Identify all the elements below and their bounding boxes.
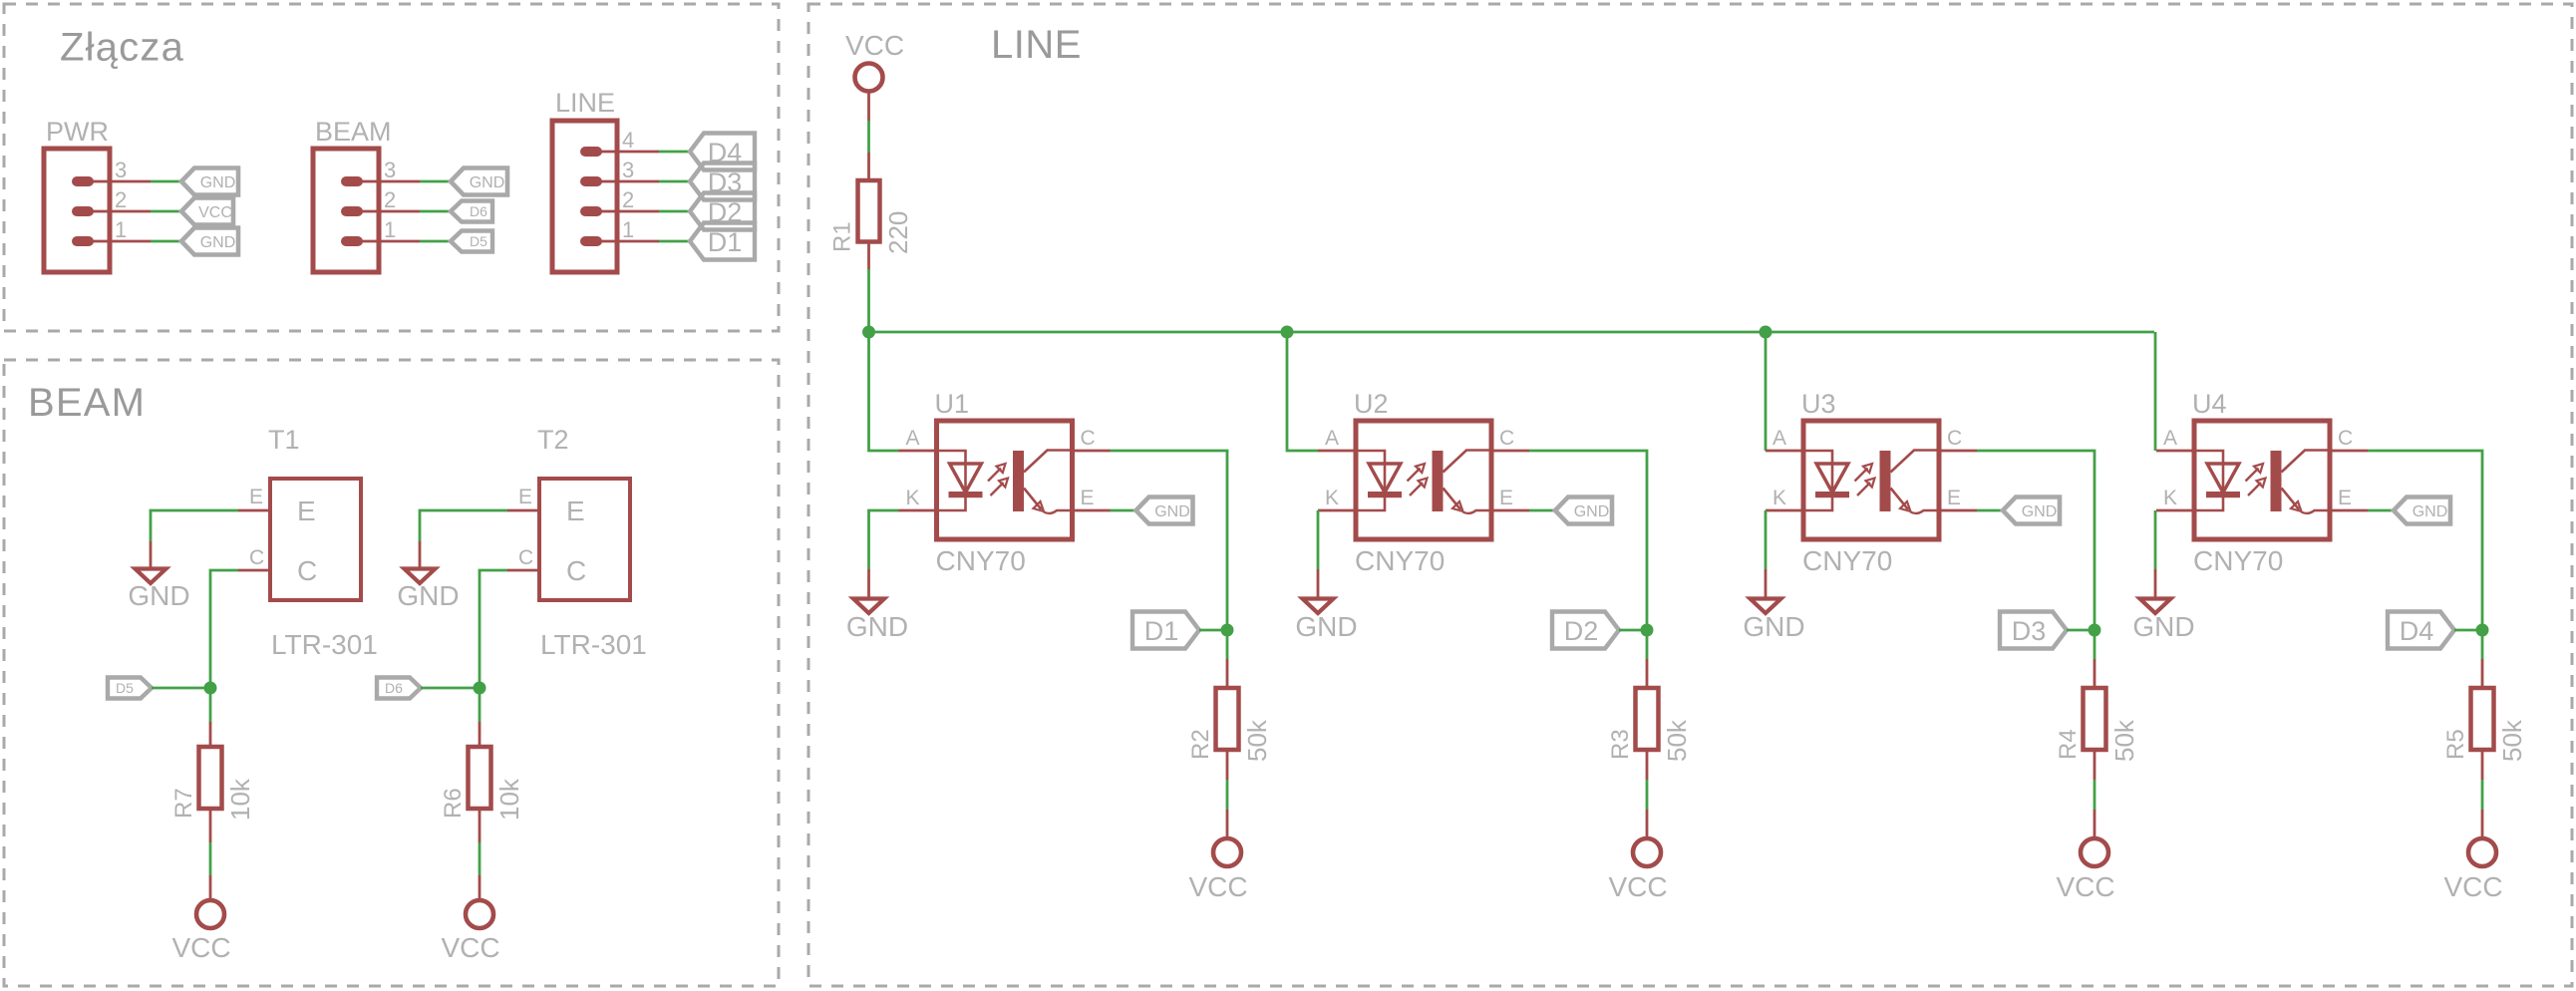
junction node D3 xyxy=(2089,624,2101,637)
wire E to GND (T1) xyxy=(151,510,238,541)
pin K (U2) xyxy=(1318,487,1356,510)
wire junction to R3 xyxy=(1646,630,1649,659)
wire net from PWR pin at y=212 xyxy=(151,210,182,213)
pin 1 (BEAM) xyxy=(352,217,420,242)
svg-text:LTR-301: LTR-301 xyxy=(540,629,647,660)
wire bus to U2 anode xyxy=(1287,332,1318,451)
wire net from LINE pin at y=152 xyxy=(659,151,691,154)
ground GND (T1) xyxy=(128,569,189,612)
flag GND (U4) xyxy=(2394,497,2450,524)
wire D4 flag to junction xyxy=(2454,629,2482,632)
wire net from BEAM pin at y=242 xyxy=(420,240,452,243)
svg-text:D2: D2 xyxy=(1564,616,1599,646)
ground GND (T2) xyxy=(397,569,459,612)
pin 1 (LINE conn) xyxy=(591,217,659,242)
svg-text:E: E xyxy=(249,486,263,508)
resistor R5 xyxy=(2471,688,2494,750)
svg-text:LTR-301: LTR-301 xyxy=(271,629,378,660)
flag D3 (LINE conn) xyxy=(690,164,755,200)
svg-text:A: A xyxy=(905,427,919,450)
svg-text:T2: T2 xyxy=(537,425,569,455)
wire gnd stub (U1) xyxy=(867,569,870,598)
pin 3 (BEAM) xyxy=(352,158,420,182)
svg-text:U3: U3 xyxy=(1801,389,1836,419)
supply VCC (R4) xyxy=(2056,838,2114,902)
svg-text:10k: 10k xyxy=(225,778,255,821)
svg-text:A: A xyxy=(2163,427,2177,450)
svg-text:1: 1 xyxy=(622,217,634,242)
wire net from BEAM pin at y=212 xyxy=(420,210,452,213)
pin 3 (PWR) xyxy=(83,158,151,182)
resistor R3 xyxy=(1636,688,1659,750)
svg-text:GND: GND xyxy=(470,174,505,191)
wire pin to gnd symbol (T1) xyxy=(150,541,153,568)
wire bus (VCC-LED rail) xyxy=(869,331,2155,334)
svg-text:D1: D1 xyxy=(708,227,743,257)
resistor R6 xyxy=(469,747,491,809)
wire C to junction D4 (U4) xyxy=(2368,451,2482,630)
wire R1 to bus xyxy=(867,242,870,270)
svg-text:C: C xyxy=(249,546,264,569)
pin C (U2) xyxy=(1491,427,1529,451)
wire net from LINE pin at y=212 xyxy=(659,210,691,213)
svg-text:C: C xyxy=(297,555,317,586)
pin E (U2) xyxy=(1491,487,1529,510)
svg-text:D1: D1 xyxy=(1144,616,1179,646)
svg-text:2: 2 xyxy=(115,187,127,212)
svg-text:VCC: VCC xyxy=(441,932,499,963)
svg-text:CNY70: CNY70 xyxy=(936,545,1026,576)
wire E to GND flag (U4) xyxy=(2368,509,2395,512)
svg-text:GND: GND xyxy=(846,611,908,642)
wire K to GND (U4) xyxy=(2154,510,2157,569)
svg-text:GND: GND xyxy=(2413,503,2448,520)
wire D1 flag to junction xyxy=(1199,629,1227,632)
svg-text:R4: R4 xyxy=(2055,729,2082,760)
phototransistor T2 (LTR-301) xyxy=(539,479,630,600)
svg-text:D6: D6 xyxy=(385,680,403,696)
wire bus to U1 anode xyxy=(869,332,899,451)
svg-text:C: C xyxy=(1499,427,1514,450)
wire R7 to VCC xyxy=(209,809,212,842)
wire R5 to VCC xyxy=(2481,750,2484,780)
wire net from PWR pin at y=182 xyxy=(151,180,182,183)
svg-text:K: K xyxy=(2163,487,2177,509)
svg-text:D5: D5 xyxy=(116,680,134,696)
svg-text:BEAM: BEAM xyxy=(28,381,146,425)
junction node D2 xyxy=(1641,624,1654,637)
svg-text:K: K xyxy=(1772,487,1786,509)
wire net from BEAM pin at y=182 xyxy=(420,180,452,183)
svg-text:GND: GND xyxy=(1154,503,1190,520)
pin 1 (PWR) xyxy=(83,217,151,242)
pin K (U1) xyxy=(899,487,937,510)
svg-text:A: A xyxy=(1325,427,1339,450)
svg-text:CNY70: CNY70 xyxy=(1355,545,1445,576)
frame: Zlacza section xyxy=(4,4,779,331)
flag D1 xyxy=(1132,612,1199,649)
supply VCC (R2) xyxy=(1188,838,1247,902)
svg-text:VCC: VCC xyxy=(198,204,232,221)
supply VCC (T2) xyxy=(441,900,499,963)
svg-text:C: C xyxy=(1947,427,1962,450)
supply VCC (R5) xyxy=(2443,838,2502,902)
wire bus to U4 anode xyxy=(2154,332,2157,451)
flag D6 (BEAM) xyxy=(451,201,492,222)
wire junction to R4 xyxy=(2093,630,2096,659)
wire D2 flag to junction xyxy=(1619,629,1647,632)
resistor R4 xyxy=(2084,688,2106,750)
svg-text:VCC: VCC xyxy=(2443,871,2502,902)
svg-text:2: 2 xyxy=(622,187,634,212)
pin 2 (LINE conn) xyxy=(591,187,659,212)
wire C to junction D3 (U3) xyxy=(1977,451,2094,630)
connector PWR xyxy=(44,149,110,272)
svg-text:50k: 50k xyxy=(1662,719,1692,762)
pin E (U4) xyxy=(2330,487,2368,510)
wire VCC to R1 xyxy=(867,92,870,122)
pin E (T2) xyxy=(507,486,541,510)
frame: BEAM section xyxy=(4,360,779,986)
svg-text:C: C xyxy=(518,546,533,569)
resistor R7 xyxy=(199,747,222,809)
wire C to junction D2 (U2) xyxy=(1529,451,1647,630)
ground GND (U2) xyxy=(1295,599,1357,643)
svg-text:A: A xyxy=(1772,427,1786,450)
svg-text:R3: R3 xyxy=(1607,729,1634,760)
junction bus/U1 xyxy=(862,326,875,339)
wire junction to R7 xyxy=(209,688,212,722)
wire K to GND (U1) xyxy=(869,510,899,569)
wire K to GND (U2) xyxy=(1317,510,1320,569)
wire junction to R5 xyxy=(2481,630,2484,659)
svg-text:GND: GND xyxy=(200,234,236,251)
svg-text:3: 3 xyxy=(384,158,396,182)
optocoupler U2 (CNY70) xyxy=(1356,421,1491,539)
flag D5 (BEAM) xyxy=(451,231,492,252)
supply VCC (T1) xyxy=(171,900,230,963)
svg-text:E: E xyxy=(297,495,316,526)
junction bus/U3 xyxy=(1760,326,1772,339)
svg-text:VCC: VCC xyxy=(171,932,230,963)
pin E (U3) xyxy=(1939,487,1977,510)
wire E to GND flag (U1) xyxy=(1111,509,1137,512)
pin A (U4) xyxy=(2156,427,2194,451)
flag D6 xyxy=(377,678,421,699)
flag D3 xyxy=(2000,612,2067,649)
svg-text:E: E xyxy=(2338,487,2352,509)
svg-text:E: E xyxy=(518,486,532,508)
pin E (U1) xyxy=(1073,487,1111,510)
svg-text:50k: 50k xyxy=(2497,719,2527,762)
frame: LINE section xyxy=(808,4,2572,986)
optocoupler U3 (CNY70) xyxy=(1803,421,1939,539)
junction node D6 xyxy=(474,682,486,695)
flag D2 (LINE conn) xyxy=(690,193,755,230)
wire R6 to VCC xyxy=(479,809,482,842)
flag D1 (LINE conn) xyxy=(690,223,755,260)
pin A (U1) xyxy=(899,427,937,451)
pin 3 (LINE conn) xyxy=(591,158,659,182)
pin C (T2) xyxy=(507,546,541,570)
wire R2 to VCC xyxy=(1226,750,1229,780)
wire D5 flag to junction xyxy=(152,687,210,690)
pin K (U4) xyxy=(2156,487,2194,510)
svg-text:D5: D5 xyxy=(470,233,487,249)
wire C to junction D1 (U1) xyxy=(1111,451,1228,630)
wire net from LINE pin at y=182 xyxy=(659,180,691,183)
svg-text:GND: GND xyxy=(1743,611,1804,642)
wire net from PWR pin at y=242 xyxy=(151,240,182,243)
pin C (U3) xyxy=(1939,427,1977,451)
svg-text:1: 1 xyxy=(384,217,396,242)
wire E to GND flag (U2) xyxy=(1529,509,1556,512)
svg-text:GND: GND xyxy=(2022,503,2058,520)
svg-text:LINE: LINE xyxy=(555,88,615,118)
pin K (U3) xyxy=(1766,487,1803,510)
svg-text:T1: T1 xyxy=(268,425,300,455)
flag GND (U3) xyxy=(2003,497,2060,524)
svg-text:R1: R1 xyxy=(829,221,856,252)
svg-text:2: 2 xyxy=(384,187,396,212)
svg-text:3: 3 xyxy=(622,158,634,182)
wire E to GND (T2) xyxy=(420,510,507,541)
wire gnd stub (U4) xyxy=(2154,569,2157,598)
pin C (U1) xyxy=(1073,427,1111,451)
wire C net (T2) xyxy=(480,570,507,688)
ground GND (U1) xyxy=(846,599,908,643)
optocoupler U4 (CNY70) xyxy=(2194,421,2330,539)
svg-text:U4: U4 xyxy=(2192,389,2227,419)
svg-text:K: K xyxy=(1325,487,1339,509)
svg-text:BEAM: BEAM xyxy=(315,117,392,147)
flag GND (PWR) xyxy=(181,168,238,195)
junction node D5 xyxy=(204,682,217,695)
flag GND (U1) xyxy=(1136,497,1193,524)
svg-text:C: C xyxy=(2338,427,2353,450)
pin 4 (LINE conn) xyxy=(591,128,659,153)
svg-text:220: 220 xyxy=(883,211,913,254)
wire E to GND flag (U3) xyxy=(1977,509,2004,512)
wire gnd stub (U2) xyxy=(1317,569,1320,598)
ground GND (U3) xyxy=(1743,599,1804,643)
svg-text:U2: U2 xyxy=(1354,389,1389,419)
svg-text:4: 4 xyxy=(622,128,634,153)
svg-text:R2: R2 xyxy=(1187,729,1214,760)
connector LINE xyxy=(552,121,617,272)
svg-text:D4: D4 xyxy=(2400,616,2434,646)
svg-text:VCC: VCC xyxy=(2056,871,2114,902)
junction bus/U2 xyxy=(1281,326,1294,339)
svg-text:GND: GND xyxy=(1295,611,1357,642)
svg-text:R5: R5 xyxy=(2442,729,2469,760)
optocoupler U1 (CNY70) xyxy=(937,421,1073,539)
wire C net (T1) xyxy=(210,570,238,688)
svg-text:LINE: LINE xyxy=(991,23,1082,67)
wire D3 flag to junction xyxy=(2067,629,2094,632)
pin 2 (BEAM) xyxy=(352,187,420,212)
flag GND (U2) xyxy=(1555,497,1612,524)
svg-text:50k: 50k xyxy=(1242,719,1272,762)
wire junction to R6 xyxy=(479,688,482,722)
svg-text:Złącza: Złącza xyxy=(60,26,184,70)
flag D5 xyxy=(108,678,152,699)
phototransistor T1 (LTR-301) xyxy=(270,479,361,600)
svg-text:GND: GND xyxy=(1574,503,1610,520)
svg-text:R6: R6 xyxy=(440,788,467,819)
svg-text:VCC: VCC xyxy=(1608,871,1667,902)
svg-text:E: E xyxy=(1081,487,1095,509)
svg-text:VCC: VCC xyxy=(1188,871,1247,902)
junction node D4 xyxy=(2476,624,2489,637)
svg-text:K: K xyxy=(905,487,919,509)
flag GND (BEAM) xyxy=(451,168,507,195)
svg-text:GND: GND xyxy=(128,580,189,611)
svg-text:GND: GND xyxy=(2132,611,2194,642)
svg-text:D6: D6 xyxy=(470,203,487,219)
supply VCC (top) xyxy=(845,30,904,92)
flag D4 xyxy=(2388,612,2454,649)
svg-text:1: 1 xyxy=(115,217,127,242)
wire K to GND (U3) xyxy=(1765,510,1768,569)
svg-text:3: 3 xyxy=(115,158,127,182)
wire bus to U3 anode xyxy=(1765,332,1768,451)
resistor R2 xyxy=(1216,688,1239,750)
wire D6 flag to junction xyxy=(421,687,480,690)
junction node D1 xyxy=(1221,624,1234,637)
wire R4 to VCC xyxy=(2093,750,2096,780)
flag D2 xyxy=(1552,612,1619,649)
wire junction to R2 xyxy=(1226,630,1229,659)
svg-text:E: E xyxy=(1947,487,1961,509)
svg-text:D3: D3 xyxy=(2012,616,2047,646)
svg-text:E: E xyxy=(566,495,585,526)
wire gnd stub (U3) xyxy=(1765,569,1768,598)
svg-text:C: C xyxy=(1081,427,1096,450)
supply VCC (R3) xyxy=(1608,838,1667,902)
pin A (U3) xyxy=(1766,427,1803,451)
svg-text:50k: 50k xyxy=(2109,719,2139,762)
flag VCC (PWR) xyxy=(181,198,233,225)
svg-text:CNY70: CNY70 xyxy=(1802,545,1892,576)
svg-text:C: C xyxy=(566,555,586,586)
flag GND (PWR) xyxy=(181,228,238,255)
svg-text:PWR: PWR xyxy=(46,117,109,147)
svg-text:GND: GND xyxy=(397,580,459,611)
pin A (U2) xyxy=(1318,427,1356,451)
pin C (T1) xyxy=(238,546,272,570)
svg-text:R7: R7 xyxy=(170,788,197,819)
wire net from LINE pin at y=242 xyxy=(659,240,691,243)
wire R3 to VCC xyxy=(1646,750,1649,780)
svg-text:VCC: VCC xyxy=(845,30,904,61)
svg-text:E: E xyxy=(1499,487,1513,509)
connector BEAM xyxy=(313,149,379,272)
flag D4 (LINE conn) xyxy=(690,134,755,170)
svg-text:GND: GND xyxy=(200,174,236,191)
wire pin to gnd symbol (T2) xyxy=(419,541,422,568)
pin 2 (PWR) xyxy=(83,187,151,212)
ground GND (U4) xyxy=(2132,599,2194,643)
pin C (U4) xyxy=(2330,427,2368,451)
svg-text:10k: 10k xyxy=(494,778,524,821)
svg-text:CNY70: CNY70 xyxy=(2193,545,2283,576)
svg-text:U1: U1 xyxy=(935,389,970,419)
pin E (T1) xyxy=(238,486,272,510)
resistor R1 xyxy=(858,180,880,242)
